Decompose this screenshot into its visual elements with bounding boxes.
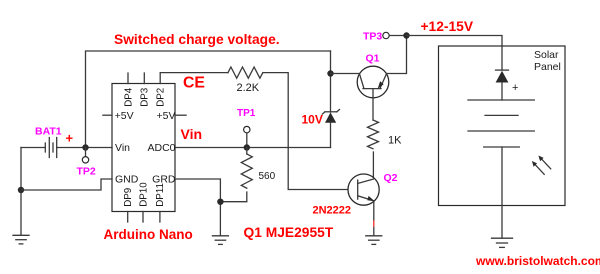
light arrows xyxy=(532,156,551,175)
pin DP9 stub xyxy=(127,212,129,223)
svg-text:560: 560 xyxy=(259,171,276,182)
node junction GRD/560 xyxy=(217,199,223,205)
svg-text:DP9: DP9 xyxy=(123,188,134,207)
battery BAT1 xyxy=(45,138,56,158)
wire +12V rail to solar panel xyxy=(407,36,503,71)
svg-text:DP10: DP10 xyxy=(138,182,149,207)
solar panel box xyxy=(439,46,566,206)
ground Q2 xyxy=(366,236,382,245)
node junction +12V rail xyxy=(403,32,409,38)
svg-text:Q2: Q2 xyxy=(384,172,398,184)
wire battery negative to left rail xyxy=(21,147,45,149)
pin DP3 stub xyxy=(143,73,145,84)
test point TP1 xyxy=(244,126,250,147)
ground left xyxy=(13,235,29,244)
pin DP10 stub xyxy=(142,212,144,223)
svg-text:1K: 1K xyxy=(388,135,402,147)
wire 2.2K to Q2 base xyxy=(263,73,358,190)
svg-text:+: + xyxy=(66,131,74,146)
wire node A to Q1 collector xyxy=(331,73,360,75)
svg-text:2.2K: 2.2K xyxy=(237,82,260,94)
wire left rail down to ground xyxy=(20,148,22,236)
svg-text:TP3: TP3 xyxy=(363,30,382,42)
test point TP2 xyxy=(82,148,88,164)
svg-text:+5V: +5V xyxy=(115,110,134,122)
pin DP4 stub xyxy=(127,73,129,84)
svg-text:GND: GND xyxy=(115,174,139,186)
svg-text:+12-15V: +12-15V xyxy=(421,19,474,34)
wire node A vertical to zener top xyxy=(330,51,332,112)
svg-text:Arduino Nano: Arduino Nano xyxy=(104,227,193,242)
svg-text:+: + xyxy=(512,82,518,94)
svg-text:10V: 10V xyxy=(302,113,323,127)
svg-text:BAT1: BAT1 xyxy=(35,126,62,138)
svg-text:Q1 MJE2955T: Q1 MJE2955T xyxy=(244,225,334,240)
wire switched charge loop (battery node up and across top) xyxy=(86,51,331,148)
svg-text:www.bristolwatch.com: www.bristolwatch.com xyxy=(475,254,600,268)
transistor Q2 2N2222 xyxy=(348,174,379,205)
resistor R2 560 xyxy=(241,154,252,188)
svg-text:TP1: TP1 xyxy=(237,108,256,119)
wire Q2 emitter to ground xyxy=(373,201,375,236)
node junction battery/left rail xyxy=(18,187,24,193)
wire panel negative to ground xyxy=(501,147,503,238)
red probe mark on emitter wire xyxy=(373,221,375,228)
svg-text:DP4: DP4 xyxy=(123,87,134,107)
zener diode D1 10V xyxy=(322,110,339,148)
ground panel xyxy=(492,238,513,247)
resistor R1 2.2K xyxy=(228,67,263,78)
svg-text:CE: CE xyxy=(183,75,205,92)
pin DP2 wire to 2.2K xyxy=(160,73,228,84)
resistor R3 1K xyxy=(368,120,379,149)
svg-text:TP2: TP2 xyxy=(77,165,96,177)
svg-text:Vin: Vin xyxy=(115,142,130,154)
wire GRD to ground xyxy=(175,179,220,236)
solar cell plates xyxy=(468,100,534,147)
wire Q1 emitter to +12-15V rail xyxy=(387,36,407,74)
svg-text:+5V: +5V xyxy=(157,110,176,122)
wire GND return xyxy=(21,179,112,190)
node junction BAT1/TP2/Vin xyxy=(82,144,88,150)
node junction A (zener / Q1 collector) xyxy=(327,70,333,76)
test point TP3 xyxy=(383,32,407,38)
svg-text:Panel: Panel xyxy=(534,61,561,73)
svg-text:2N2222: 2N2222 xyxy=(313,204,352,216)
svg-text:DP11: DP11 xyxy=(155,183,166,207)
svg-text:Vin: Vin xyxy=(181,126,203,142)
pin DP11 stub xyxy=(159,212,161,223)
svg-text:Switched charge voltage.: Switched charge voltage. xyxy=(114,32,280,47)
ground middle xyxy=(212,236,228,245)
svg-text:Solar: Solar xyxy=(534,49,559,61)
svg-text:DP2: DP2 xyxy=(156,88,167,107)
wire battery positive to Vin node xyxy=(57,147,112,149)
wire 1K to Q2 collector xyxy=(372,152,374,179)
transistor Q1 MJE2955T xyxy=(357,66,389,120)
pin +5V left stub xyxy=(103,114,112,116)
wire ADC0 net (zener bottom to IC, crosses 2.2K drop) xyxy=(175,147,331,149)
svg-text:DP3: DP3 xyxy=(140,87,151,107)
svg-text:ADC0: ADC0 xyxy=(147,142,175,154)
node junction TP1/ADC0 xyxy=(244,144,250,150)
svg-text:Q1: Q1 xyxy=(366,52,380,64)
pin +5V right stub xyxy=(175,114,186,116)
diode D2 blocking xyxy=(496,70,509,100)
IC U1 Arduino Nano body xyxy=(112,84,175,212)
